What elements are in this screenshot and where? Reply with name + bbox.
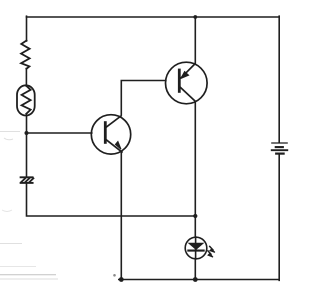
wire: Q1 base wire from left node xyxy=(27,132,92,134)
transistor Q2 xyxy=(166,62,208,104)
wire: Q1 collector up and across to Q2 base xyxy=(121,81,166,116)
photoresistor LDR R2 xyxy=(17,85,35,115)
wire: LED to bottom rail xyxy=(194,259,196,280)
node: bottom rail left corner xyxy=(119,277,124,282)
wire: Q2 emitter up to top rail xyxy=(194,17,196,64)
node: junction at (195,216) xyxy=(193,214,197,218)
wire: LED anode/cathode vertical through LED xyxy=(195,237,197,259)
wire: left junction down to capacitor xyxy=(26,133,28,177)
wire: battery to bottom rail xyxy=(278,154,280,280)
wire: Q1 emitter down to bottom rail xyxy=(120,152,122,280)
LED D1 xyxy=(185,237,215,259)
wire: LDR to left junction node xyxy=(26,115,28,133)
node: junction on top rail xyxy=(193,15,197,19)
resistor R1 xyxy=(21,41,30,69)
transistor Q1 xyxy=(91,115,130,154)
wire: bottom rail xyxy=(119,279,279,281)
wire: top power rail xyxy=(27,16,280,18)
battery B1 xyxy=(271,143,288,154)
node: bottom rail LED junction xyxy=(193,277,198,282)
wire: right rail from top rail to battery xyxy=(278,16,280,142)
wire: resistor to LDR xyxy=(25,69,27,87)
wire: left rail from top rail to resistor xyxy=(26,16,28,41)
capacitor C1 xyxy=(21,177,34,183)
wire: Q2 collector down to junction and LED xyxy=(194,102,196,238)
node: left divider junction xyxy=(25,131,29,135)
wire: capacitor down and bottom-left horizontal run to LED column xyxy=(27,184,196,217)
